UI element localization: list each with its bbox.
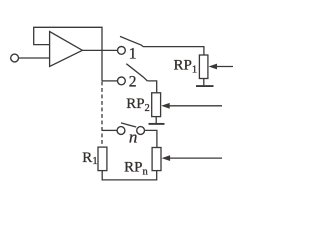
svg-text:RP1: RP1 bbox=[174, 58, 198, 76]
svg-text:RP2: RP2 bbox=[126, 96, 150, 114]
svg-text:1: 1 bbox=[129, 46, 137, 63]
svg-text:n: n bbox=[129, 128, 138, 147]
svg-text:2: 2 bbox=[129, 74, 137, 91]
svg-text:R1: R1 bbox=[82, 150, 97, 167]
svg-text:RPn: RPn bbox=[124, 160, 148, 178]
